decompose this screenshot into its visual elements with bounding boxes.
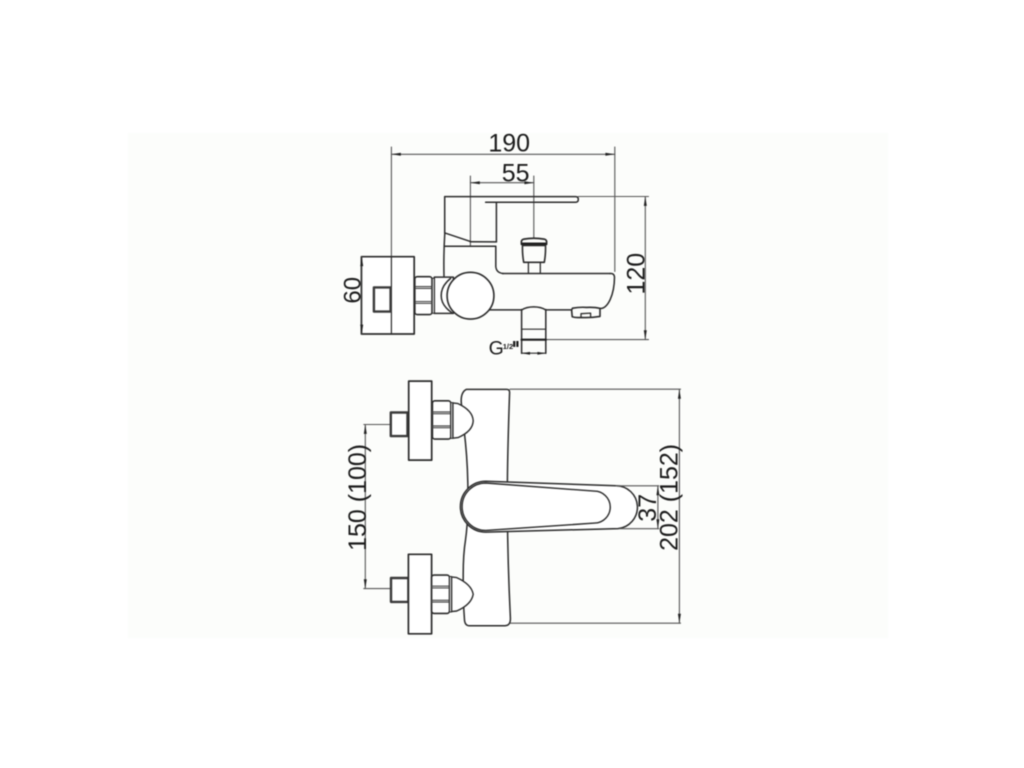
inlet stub (side) xyxy=(374,287,391,311)
svg-text:150 (100): 150 (100) xyxy=(344,444,372,551)
wall flange (side) xyxy=(361,257,414,334)
dim 202 extension top xyxy=(510,388,681,390)
dim 202 arrow top xyxy=(678,389,681,398)
diverter bell cap band xyxy=(522,243,547,245)
handle lever bar (side) xyxy=(445,197,579,203)
dim 150 line xyxy=(364,425,366,589)
cartridge block diagonal xyxy=(445,233,471,242)
dim 60 line on flange left edge xyxy=(361,257,363,334)
dim 150 extension bottom xyxy=(364,588,392,590)
dim 37 extension bottom xyxy=(620,528,659,530)
lever handle outer xyxy=(460,481,637,532)
dim 150 arrow top xyxy=(364,425,367,434)
dim 55 arrow right xyxy=(524,181,533,184)
pipe coupling line xyxy=(522,328,546,330)
svg-text:60: 60 xyxy=(339,277,366,304)
dim 190 line xyxy=(391,153,614,155)
collar line xyxy=(444,245,496,247)
diverter bell stem xyxy=(528,263,540,274)
diverter bell body xyxy=(522,246,545,263)
svg-text:G: G xyxy=(489,338,504,360)
body bottom line right of pipe xyxy=(546,309,572,311)
pipe bottom arrow right xyxy=(537,352,545,355)
dim 37 arrow bottom xyxy=(656,519,659,528)
neck left profile xyxy=(443,233,446,277)
dim 120 extension top xyxy=(578,196,648,198)
aerator notch xyxy=(581,313,591,317)
svg-text:55: 55 xyxy=(502,160,530,188)
dim 202 arrow bottom xyxy=(678,614,681,623)
body column xyxy=(461,389,510,625)
cartridge block left edge xyxy=(444,197,446,233)
dim 190 extension line right xyxy=(614,147,616,272)
top flange xyxy=(409,381,432,460)
dim 150 arrow bottom xyxy=(364,579,367,588)
neck right profile with flare xyxy=(496,246,503,273)
dim 190 extension line left / flange divider xyxy=(390,147,392,334)
outlet pipe dome xyxy=(522,307,546,310)
bottom nut facet lines xyxy=(432,586,450,602)
ball housing block xyxy=(434,277,453,313)
dim 37 extension top xyxy=(616,485,659,487)
top hex nut xyxy=(432,401,450,439)
top washer xyxy=(451,403,453,439)
aerator xyxy=(572,307,600,317)
bottom washer xyxy=(450,577,452,613)
dim 37 arrow top xyxy=(656,486,659,495)
dim 120 extension bottom xyxy=(546,339,649,341)
top inlet stub xyxy=(391,413,408,437)
pipe bottom dim line xyxy=(522,352,546,354)
dim 202 extension bottom xyxy=(510,622,680,624)
dim 55 extension line right xyxy=(533,176,535,238)
pipe coupling dark line xyxy=(522,339,546,341)
dim 37 line xyxy=(657,486,659,529)
bottom hex nut xyxy=(432,575,450,613)
dim 55 line xyxy=(470,182,533,184)
body top line xyxy=(503,273,610,275)
bottom cone xyxy=(452,577,474,612)
top nut facet lines xyxy=(432,412,450,428)
flange divider xyxy=(390,257,392,334)
cartridge block bottom xyxy=(470,241,496,243)
bottom flange xyxy=(408,554,431,634)
dim 190 arrow left xyxy=(391,153,400,156)
diverter bell cap xyxy=(521,238,546,243)
dim 190 arrow right xyxy=(605,153,614,156)
image background tint xyxy=(128,133,888,638)
body bottom line left of pipe xyxy=(490,309,522,311)
pipe bottom arrow left xyxy=(522,352,530,355)
dim 202 line xyxy=(678,389,680,623)
outlet pipe walls xyxy=(522,310,546,354)
dim 60 arrow top xyxy=(360,257,363,266)
dim 120 arrow top xyxy=(644,197,647,206)
svg-text:190: 190 xyxy=(488,130,530,158)
washer (side) xyxy=(432,278,434,313)
spout tip curve xyxy=(600,274,614,309)
lever handle inner xyxy=(462,483,610,530)
svg-text:120: 120 xyxy=(623,253,651,295)
bottom inlet stub xyxy=(391,578,408,602)
svg-text:37: 37 xyxy=(634,494,662,522)
dim 120 line xyxy=(644,197,646,340)
nut facet lines (side) xyxy=(415,287,432,304)
dim 120 arrow bottom xyxy=(644,330,647,339)
svg-text:1/2: 1/2 xyxy=(503,342,513,351)
dim 55 extension line left xyxy=(469,176,471,246)
top cone xyxy=(453,403,473,438)
dim 150 extension top xyxy=(364,424,391,426)
dim 55 arrow left xyxy=(470,181,479,184)
dim 60 arrow bottom xyxy=(360,325,363,334)
cartridge block right edge xyxy=(495,203,497,242)
hex nut (side) xyxy=(415,277,432,315)
ball joint xyxy=(447,272,494,319)
cup arc behind ball xyxy=(441,278,452,312)
